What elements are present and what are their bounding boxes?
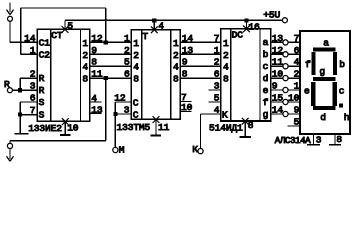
svg-text:10: 10 <box>67 123 79 134</box>
svg-text:g: g <box>263 109 269 120</box>
svg-text:C2: C2 <box>39 49 51 60</box>
svg-text:S: S <box>39 110 45 121</box>
svg-text:4: 4 <box>223 62 229 73</box>
svg-text:8: 8 <box>248 120 254 131</box>
svg-text:1: 1 <box>133 38 139 49</box>
svg-text:2: 2 <box>223 50 229 61</box>
svg-text:a: a <box>263 37 269 48</box>
svg-text:13: 13 <box>91 104 103 115</box>
svg-text:9: 9 <box>294 105 300 116</box>
svg-text:10: 10 <box>181 102 193 113</box>
svg-text:c: c <box>339 86 345 97</box>
svg-text:12: 12 <box>114 93 126 104</box>
svg-text:11: 11 <box>158 122 170 133</box>
svg-text:2: 2 <box>294 69 300 80</box>
svg-text:4: 4 <box>214 105 220 116</box>
svg-text:+5U: +5U <box>263 10 280 21</box>
svg-text:6: 6 <box>214 69 220 80</box>
svg-text:3: 3 <box>214 81 220 92</box>
svg-text:b: b <box>339 59 345 70</box>
svg-text:6: 6 <box>30 93 36 104</box>
svg-text:7: 7 <box>294 33 300 44</box>
svg-text:5: 5 <box>67 21 73 32</box>
svg-text:10: 10 <box>288 93 300 104</box>
svg-text:8: 8 <box>133 74 139 85</box>
svg-text:133ТМ5: 133ТМ5 <box>117 122 151 133</box>
svg-text:S: S <box>39 97 45 108</box>
svg-text:7: 7 <box>214 33 220 44</box>
svg-text:8: 8 <box>173 74 179 85</box>
svg-text:K: K <box>222 109 228 120</box>
svg-text:5: 5 <box>294 116 300 127</box>
svg-text:f: f <box>305 59 311 70</box>
svg-text:DC: DC <box>232 30 244 41</box>
svg-text:133ИЕ2: 133ИЕ2 <box>28 123 62 134</box>
svg-text:1: 1 <box>173 38 179 49</box>
svg-text:1: 1 <box>82 38 88 49</box>
svg-text:1: 1 <box>223 38 229 49</box>
svg-text:5: 5 <box>124 57 130 68</box>
svg-text:R: R <box>39 85 45 96</box>
svg-text:1: 1 <box>124 33 130 44</box>
svg-text:7: 7 <box>30 105 36 116</box>
svg-text:К: К <box>192 144 198 155</box>
svg-text:R: R <box>39 73 45 84</box>
svg-text:4: 4 <box>82 62 88 73</box>
svg-text:b: b <box>263 49 269 60</box>
svg-text:6: 6 <box>124 69 130 80</box>
svg-text:4: 4 <box>294 57 300 68</box>
svg-text:14: 14 <box>24 33 36 44</box>
svg-text:2: 2 <box>214 57 220 68</box>
svg-text:6: 6 <box>294 45 300 56</box>
svg-text:C: C <box>133 98 139 109</box>
svg-text:C1: C1 <box>39 37 51 48</box>
svg-text:e: e <box>263 85 269 96</box>
svg-text:2: 2 <box>133 50 139 61</box>
svg-text:4: 4 <box>158 20 164 31</box>
svg-text:4: 4 <box>133 62 139 73</box>
svg-text:g: g <box>319 66 325 77</box>
svg-text:АЛС314А: АЛС314А <box>275 135 311 146</box>
svg-text:1: 1 <box>214 45 220 56</box>
svg-text:e: e <box>304 86 310 97</box>
svg-text:d: d <box>320 112 326 123</box>
svg-text:4: 4 <box>173 62 179 73</box>
svg-text:3: 3 <box>316 135 322 146</box>
svg-text:2: 2 <box>82 50 88 61</box>
svg-text:2: 2 <box>124 45 130 56</box>
svg-text:T: T <box>142 31 148 42</box>
svg-text:d: d <box>263 73 269 84</box>
svg-text:f: f <box>263 97 269 108</box>
svg-text:3: 3 <box>30 81 36 92</box>
svg-text:16: 16 <box>248 22 260 33</box>
svg-text:CT: CT <box>51 30 63 41</box>
svg-text:1: 1 <box>30 45 36 56</box>
svg-text:8: 8 <box>223 74 229 85</box>
svg-text:3: 3 <box>124 105 130 116</box>
svg-text:a: a <box>323 38 329 49</box>
svg-text:М: М <box>119 144 125 155</box>
svg-text:8: 8 <box>336 134 342 145</box>
svg-text:1: 1 <box>294 81 300 92</box>
svg-text:h: h <box>344 112 350 123</box>
svg-text:2: 2 <box>173 50 179 61</box>
svg-text:c: c <box>263 61 269 72</box>
svg-text:8: 8 <box>82 74 88 85</box>
svg-text:5: 5 <box>214 93 220 104</box>
svg-text:4: 4 <box>91 93 97 104</box>
svg-text:C: C <box>133 110 139 121</box>
svg-text:514ИД1: 514ИД1 <box>209 122 243 133</box>
svg-text:2: 2 <box>30 69 36 80</box>
